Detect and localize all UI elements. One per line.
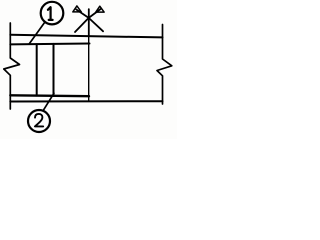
weld symbol X cross xyxy=(75,9,103,32)
splice plate top line 2 xyxy=(10,43,89,46)
node 2 callout bubble xyxy=(28,110,50,132)
beam bottom flange line 2 xyxy=(10,100,162,102)
left break line with zigzag xyxy=(4,23,20,109)
weld symbol left flag triangle xyxy=(73,6,82,12)
label 2 digit stroke xyxy=(35,114,43,127)
stiffener vertical left xyxy=(36,44,38,95)
beam top flange line 1 xyxy=(10,35,162,38)
splice end-plate vertical xyxy=(88,31,90,101)
weld leader arrow line xyxy=(88,9,90,35)
right break line with zigzag xyxy=(157,25,172,105)
wire leader from bubble 1 xyxy=(29,23,44,44)
weld symbol right flag triangle xyxy=(96,6,104,12)
label 1 digit stroke xyxy=(48,7,53,20)
wire leader from bubble 2 xyxy=(43,93,54,111)
node 1 callout bubble xyxy=(41,2,64,25)
stiffener vertical right xyxy=(53,44,55,96)
beam bottom flange line 1 xyxy=(10,94,89,97)
